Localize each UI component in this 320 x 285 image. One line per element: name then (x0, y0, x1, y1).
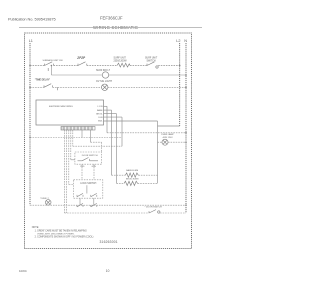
svg-text:10: 10 (106, 269, 110, 273)
svg-text:OVEN LAMP: OVEN LAMP (161, 133, 174, 136)
connector strip P1 (61, 127, 95, 131)
wire row1 L1 to surface switch (30, 65, 45, 67)
svg-text:FEF366CJF: FEF366CJF (100, 16, 123, 21)
wire dashed to N at 132.8 (107, 132, 186, 134)
svg-text:DOOR SWITCH: DOOR SWITCH (82, 155, 98, 157)
wire bake element line right (138, 174, 157, 176)
switch S4 time delay (44, 84, 58, 91)
header rule (19, 27, 202, 29)
switch S8 lock switch b (91, 193, 97, 196)
svg-text:BROIL: BROIL (96, 114, 103, 116)
wire into lock box from drop3 (69, 184, 74, 186)
svg-text:L1: L1 (29, 39, 33, 43)
wire stub pin5 long to jog (104, 120, 158, 122)
svg-text:* DOOR SWITCH: * DOOR SWITCH (145, 207, 163, 209)
wire drop lamp feed (90, 130, 92, 142)
svg-text:OV SIG LIGHT: OV SIG LIGHT (96, 80, 112, 83)
switch S9 under lock box a (77, 203, 83, 207)
junction row3/N (185, 87, 187, 89)
wire oven lamp line left (158, 141, 163, 143)
svg-text:SURFACE UNIT SW: SURFACE UNIT SW (43, 59, 64, 62)
svg-text:10/04: 10/04 (19, 269, 27, 273)
junction at L1 137.5 (29, 137, 31, 139)
wire broil element line left (117, 182, 125, 184)
resistor R1 surface element (117, 63, 130, 67)
wire L2 feeder horizontal (158, 125, 180, 127)
switch S10 under lock box b (91, 203, 97, 207)
wire lock box center tee (86, 185, 88, 193)
wire row1 to L2 (158, 65, 180, 67)
wire row3 lamp to N (108, 86, 186, 88)
junction row3/L1 (29, 87, 31, 89)
wire door switch feed vertical (101, 142, 103, 152)
wire harness drop 4 (70, 130, 72, 160)
junction lamp line N (185, 141, 187, 143)
svg-text:2. COMPONENTS SHOWN IN OFF /: 2. COMPONENTS SHOWN IN OFF / NO POWER (C… (35, 237, 94, 239)
svg-text:N: N (184, 39, 187, 43)
svg-text:"TIME DELAY": "TIME DELAY" (35, 78, 50, 81)
switch S1 surface unit switch (45, 62, 54, 71)
svg-text:DLB: DLB (98, 117, 103, 119)
wire bottom to N (160, 212, 186, 214)
switch S7 lock switch a (77, 193, 83, 196)
svg-text:BAKE: BAKE (97, 109, 103, 112)
svg-text:L1 IN: L1 IN (98, 106, 103, 108)
lamp LA2 oven signal (circle with X) (102, 84, 108, 90)
wire drop to L1 feeder (81, 130, 83, 138)
wire dashed feeder at 146.2 (73, 145, 122, 147)
wire row2 lamp to N (109, 74, 186, 76)
svg-text:2350/1300W: 2350/1300W (114, 60, 128, 62)
wire bundle vertical a (106, 106, 108, 133)
wire bundle vertical c (116, 114, 118, 184)
resistor R2 bake element (125, 173, 138, 177)
svg-text:RED: RED (80, 166, 85, 168)
switch S2 relay contact (78, 62, 87, 66)
wire bake element line left (112, 174, 126, 176)
schematic outer dashed border (25, 33, 192, 249)
wire bottom line L1 to N (30, 204, 186, 206)
resistor R3 broil element (124, 181, 138, 185)
wire L2 bus vertical (179, 43, 181, 126)
wire jog vertical to mid feeder (157, 121, 159, 183)
wire door box drop left (81, 164, 83, 180)
svg-text:BROIL ELEM: BROIL ELEM (126, 179, 139, 181)
wire stub pin4 (104, 116, 123, 118)
svg-text:BAKE ELEM: BAKE ELEM (126, 169, 138, 172)
wire harness drop 3 (68, 130, 70, 185)
lock switch box (74, 180, 103, 198)
svg-text:316263001: 316263001 (100, 240, 118, 244)
wire row3 to signal lamp (53, 86, 102, 88)
svg-text:MDL: MDL (98, 121, 103, 123)
junction upper bottom line at N (185, 204, 187, 206)
electronic oven control box U1 (36, 100, 104, 125)
svg-text:LOCK SWITCH: LOCK SWITCH (80, 183, 96, 185)
lamp LA1 surface indicator (102, 72, 108, 78)
junction row2/N (185, 74, 187, 76)
door switch box (75, 152, 102, 164)
lamp LA4 oven light (45, 200, 51, 206)
svg-text:L2: L2 (176, 39, 180, 43)
wire N bus vertical (185, 43, 187, 213)
wire oven lamp line right to N (168, 141, 186, 143)
switch S6 door switch (78, 158, 99, 161)
wire row1 segment (54, 65, 79, 67)
wire bundle vertical b (111, 110, 113, 175)
svg-text:ELECTRONIC OVEN CONTROL: ELECTRONIC OVEN CONTROL (49, 106, 74, 108)
wire broil element line right (138, 182, 158, 184)
wire bundle vertical d (121, 117, 123, 146)
wire row3 L1 to time delay switch (30, 86, 44, 88)
svg-text:SURF IND LT: SURF IND LT (96, 70, 111, 72)
wire lock box drop b (93, 198, 95, 205)
wire lock box drop a (79, 198, 81, 205)
wire stub pin2 (104, 109, 112, 111)
wire row2 to lamp (51, 74, 102, 76)
junction at N 132.8 (185, 132, 187, 134)
wire into door box from drop4 (71, 159, 75, 161)
wire stub pin1 (104, 105, 108, 107)
switch S5 door switch bottom (149, 210, 160, 214)
junction row1 branch (51, 65, 53, 67)
lamp LA3 oven lamp (circle with X) (162, 139, 168, 145)
wire row2 branch drop from row1 (50, 66, 52, 76)
wire row1 segment to bake element (87, 65, 117, 67)
wire harness drop 2 (66, 130, 68, 213)
junction row1/L1 (29, 65, 31, 67)
wire harness drop 5 (72, 130, 74, 146)
svg-text:Publication No. 5995419875: Publication No. 5995419875 (8, 17, 56, 22)
wire L1 bus vertical (29, 43, 31, 205)
svg-text:SURF UNIT: SURF UNIT (145, 57, 158, 59)
wire dashed from L1 at 137.5 (30, 137, 122, 139)
svg-text:40W 120V: 40W 120V (163, 137, 174, 139)
svg-text:NOTE:: NOTE: (32, 226, 40, 229)
junction row1/L2 (179, 65, 181, 67)
svg-text:OVEN LIGHT. DISCONNECT POWER.: OVEN LIGHT. DISCONNECT POWER. (37, 233, 75, 235)
connector pins hatch (62, 127, 93, 131)
svg-text:2P2P: 2P2P (76, 56, 86, 60)
svg-text:1. GREAT CARE MUST BE TAKEN I: 1. GREAT CARE MUST BE TAKEN IN RELAMPING (35, 230, 87, 233)
switch S3 with contact circle (147, 62, 158, 68)
wire door box drop right (93, 164, 95, 180)
wire row1 segment (130, 65, 147, 67)
wire bottom right segment (65, 212, 150, 214)
wire lamp feed horizontal (91, 141, 102, 143)
wire stub pin3 (104, 113, 117, 115)
svg-text:SURF UNIT: SURF UNIT (114, 58, 127, 60)
wire harness drop 1 (64, 130, 66, 213)
